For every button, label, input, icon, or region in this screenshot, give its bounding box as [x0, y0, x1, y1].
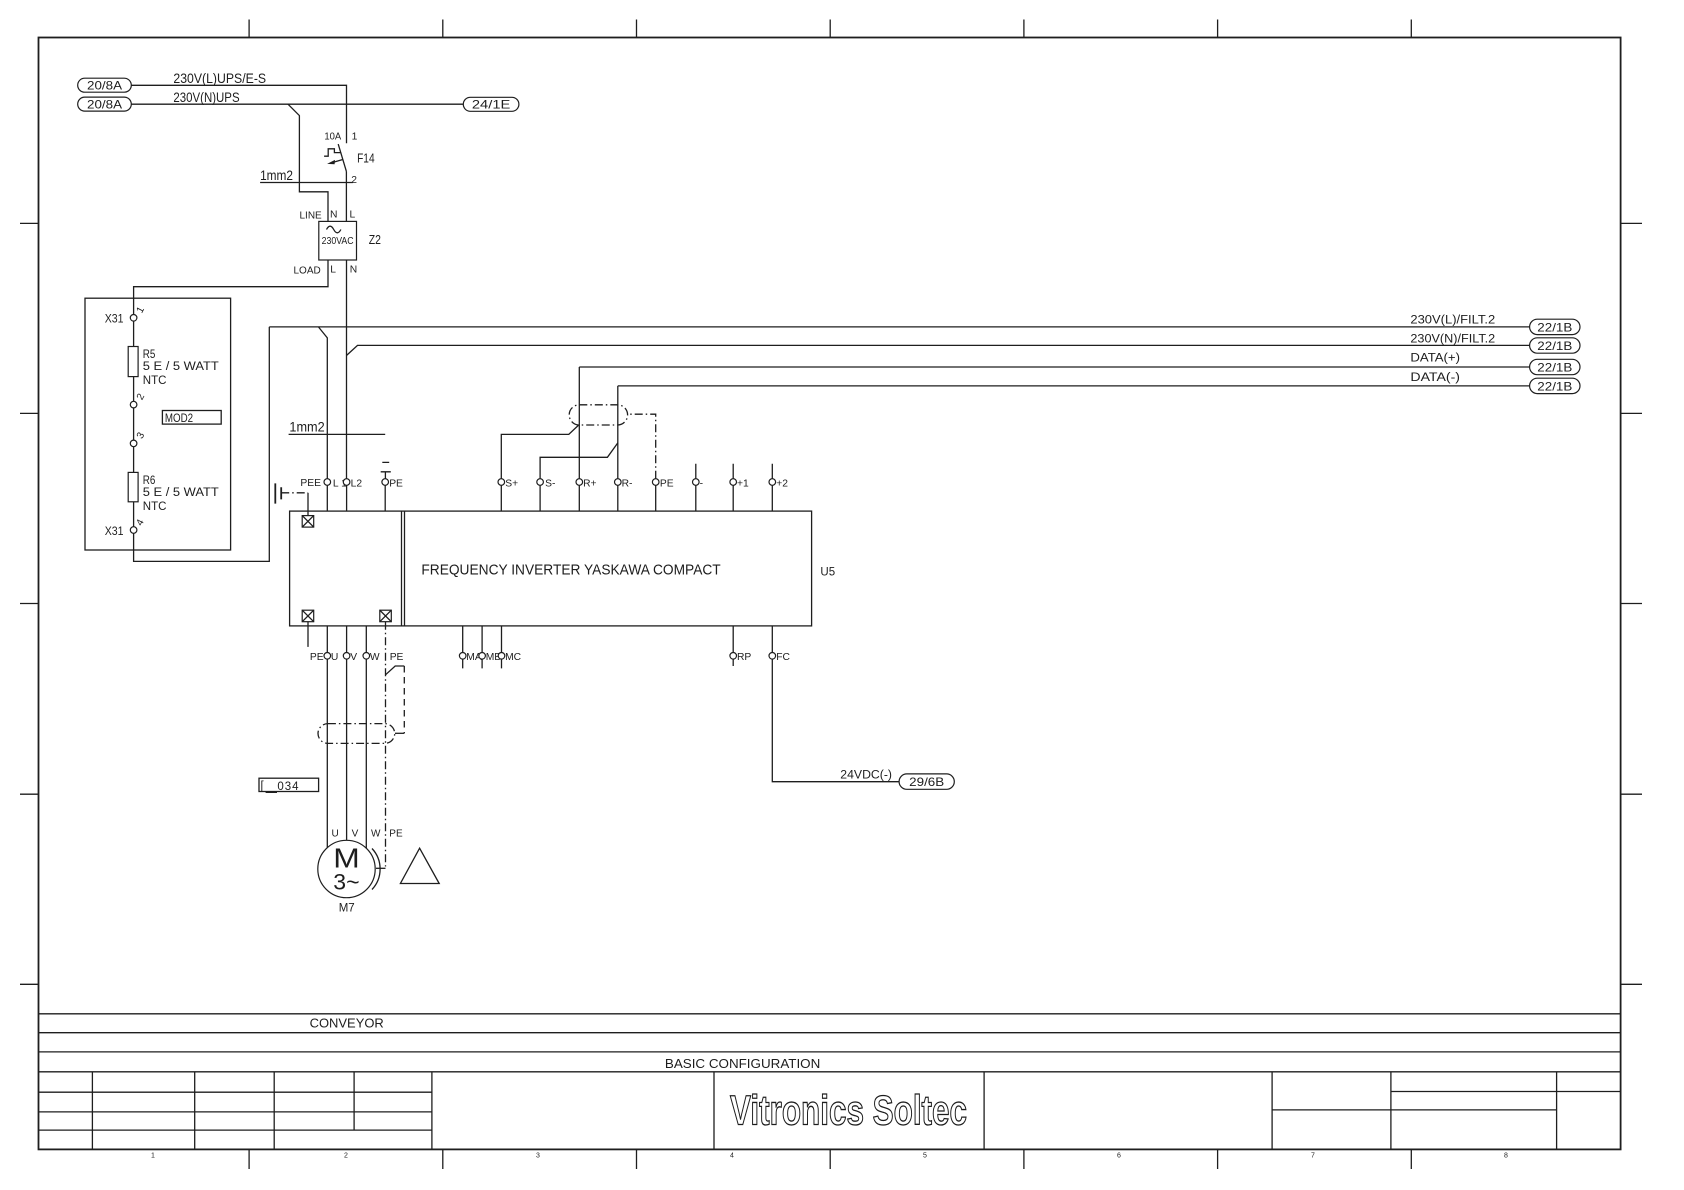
svg-text:230V(L)/FILT.2: 230V(L)/FILT.2: [1410, 314, 1495, 326]
wire W to motor: [365, 659, 367, 848]
node 3: [130, 430, 147, 446]
svg-text:BASIC CONFIGURATION: BASIC CONFIGURATION: [665, 1056, 820, 1071]
wire node 3 to R6: [133, 447, 135, 473]
svg-text:PE: PE: [389, 829, 403, 840]
svg-text:22/1B: 22/1B: [1537, 339, 1572, 353]
svg-text:R6: R6: [143, 475, 156, 487]
svg-text:PE: PE: [660, 478, 674, 489]
svg-text:U: U: [332, 829, 339, 840]
svg-text:6: 6: [1117, 1153, 1121, 1160]
Vitronics Soltec logo: [730, 1087, 967, 1134]
svg-text:R+: R+: [583, 478, 596, 489]
node 22/1B oval line 1: [1530, 319, 1580, 334]
terminal S-: [537, 478, 556, 511]
svg-text:LINE: LINE: [300, 210, 323, 221]
title block table rows: [39, 1092, 1621, 1131]
frame tick marks bottom: [249, 1149, 1411, 1169]
wire 230V(L)/FILT.2: [269, 314, 1529, 327]
svg-text:MC: MC: [505, 652, 522, 663]
terminal +2: [769, 464, 788, 511]
svg-text:5: 5: [923, 1153, 927, 1160]
svg-text:W: W: [371, 829, 381, 840]
shielded pair oval (RS-485): [569, 405, 627, 425]
svg-text:5 E / 5 WATT: 5 E / 5 WATT: [143, 487, 219, 499]
wire S- to DATA(-): [540, 443, 618, 479]
PE terminal marker bottom-left: [302, 610, 314, 622]
svg-text:R-: R-: [622, 478, 633, 489]
svg-text:N: N: [330, 209, 337, 220]
wire X31.1 to R5: [133, 321, 135, 346]
svg-text:FREQUENCY INVERTER YASKAWA COM: FREQUENCY INVERTER YASKAWA COMPACT: [421, 562, 720, 579]
svg-text:CONVEYOR: CONVEYOR: [310, 1016, 384, 1031]
wire shield drain to PE: [628, 414, 656, 479]
svg-text:L: L: [330, 264, 336, 275]
node 24/1E destination oval: [463, 97, 519, 111]
terminal MB: [479, 626, 501, 669]
node 20/8A source oval 1: [78, 78, 132, 92]
PE terminal marker bottom-mid: [380, 610, 392, 622]
svg-text:PE: PE: [389, 478, 403, 489]
wire X31.4 loop to 230V(L)/FILT.2: [134, 327, 270, 562]
node 22/1B oval line 4: [1530, 378, 1580, 393]
svg-text:10A: 10A: [324, 131, 341, 142]
svg-text:1mm2: 1mm2: [260, 167, 293, 183]
svg-text:DATA(-): DATA(-): [1410, 372, 1460, 384]
resistor R5: [128, 347, 219, 387]
svg-text:F14: F14: [357, 151, 375, 166]
svg-text:U: U: [331, 652, 338, 663]
svg-text:20/8A: 20/8A: [87, 98, 122, 112]
terminal minus: [693, 464, 704, 511]
svg-text:29/6B: 29/6B: [909, 775, 944, 789]
wire shield jog to cable oval: [386, 666, 405, 733]
resistor R6: [128, 472, 219, 512]
svg-text:230VAC: 230VAC: [322, 236, 354, 247]
svg-text:X31: X31: [105, 526, 124, 538]
terminal V: [343, 626, 357, 663]
svg-text:230V(N)/FILT.2: 230V(N)/FILT.2: [1410, 333, 1495, 345]
svg-text:L: L: [350, 209, 356, 220]
wire V to motor: [346, 659, 348, 840]
terminal RP: [730, 626, 752, 666]
svg-text:FC: FC: [776, 652, 790, 663]
svg-text:8: 8: [1504, 1153, 1508, 1160]
svg-text:-: -: [700, 478, 703, 489]
svg-text:5 E / 5 WATT: 5 E / 5 WATT: [143, 361, 219, 373]
wire node 2 to node 3: [133, 408, 135, 440]
svg-text:Vitronics Soltec: Vitronics Soltec: [730, 1087, 967, 1134]
terminal X31 pin 1: [105, 305, 148, 326]
node 29/6B oval: [899, 774, 954, 789]
terminal +1: [730, 464, 749, 511]
terminal L2: [343, 478, 362, 511]
svg-text:Z2: Z2: [369, 232, 381, 247]
module box MOD2 outline: [85, 298, 231, 550]
title block row lines: [39, 1014, 1621, 1072]
filter Z2: [294, 209, 382, 276]
wire S+ to DATA(+): [501, 425, 578, 479]
wire R6 to X31 pin 4: [133, 502, 135, 527]
label box MOD2: [162, 411, 221, 425]
svg-text:NTC: NTC: [143, 501, 167, 513]
cable label box K_034: [259, 778, 319, 793]
svg-text:2: 2: [344, 1153, 348, 1160]
svg-text:R5: R5: [143, 349, 156, 361]
terminal S+: [498, 478, 518, 511]
svg-text:1mm2: 1mm2: [289, 419, 324, 435]
svg-text:N: N: [350, 264, 357, 275]
svg-text:24VDC(-): 24VDC(-): [840, 769, 892, 781]
wire U to motor: [326, 659, 328, 848]
svg-text:V: V: [350, 652, 357, 663]
wire 230V(L)UPS/E-S: [131, 70, 346, 143]
wire DATA(-): [618, 372, 1530, 386]
frame tick marks top: [249, 20, 1411, 38]
earth symbol (functional earth): [275, 483, 308, 515]
motor M7: [318, 840, 375, 914]
svg-text:230V(L)UPS/E-S: 230V(L)UPS/E-S: [173, 70, 266, 86]
PE terminal marker top-left: [300, 478, 321, 527]
title BASIC CONFIGURATION: [665, 1056, 820, 1071]
wire Z2 load L to X31: [134, 260, 328, 315]
terminal MA: [459, 626, 481, 669]
terminal X31 pin 4: [105, 517, 147, 538]
svg-text:22/1B: 22/1B: [1537, 361, 1572, 375]
frame segment numbers bottom: [151, 1153, 1508, 1160]
terminal R+: [576, 367, 597, 511]
svg-text:M7: M7: [339, 903, 355, 915]
terminal R-: [615, 386, 633, 511]
motor cable shield oval: [318, 724, 395, 744]
svg-text:+2: +2: [776, 478, 788, 489]
svg-text:24/1E: 24/1E: [472, 98, 510, 112]
wire PE shield dash-dot to motor: [376, 622, 404, 869]
warning triangle: [400, 848, 439, 883]
svg-text:034: 034: [277, 781, 299, 793]
svg-text:3~: 3~: [333, 869, 359, 894]
svg-text:W: W: [370, 652, 380, 663]
wire size label 1mm2 (upper): [260, 167, 353, 183]
node 22/1B oval line 2: [1530, 338, 1580, 353]
svg-text:20/8A: 20/8A: [87, 79, 122, 93]
svg-text:1: 1: [352, 131, 358, 142]
terminal PE shield: [652, 478, 673, 511]
svg-text:+1: +1: [737, 478, 749, 489]
svg-text:7: 7: [1311, 1153, 1315, 1160]
terminal FC: [769, 626, 790, 663]
wire 230V(N)/FILT.2: [347, 333, 1530, 355]
wire R5 to node 2: [133, 377, 135, 402]
svg-text:MOD2: MOD2: [165, 413, 193, 425]
svg-text:PE: PE: [390, 652, 404, 663]
svg-text:3: 3: [536, 1153, 540, 1160]
svg-text:V: V: [352, 829, 359, 840]
wire tap to inverter L1: [319, 327, 328, 479]
wire PE stub bottom-left: [308, 622, 324, 664]
node 2: [130, 392, 147, 408]
wire 230V(N)UPS: [131, 89, 463, 105]
svg-text:PEE: PEE: [300, 478, 321, 489]
frame tick marks right: [1621, 223, 1642, 984]
svg-text:RP: RP: [737, 652, 751, 663]
wire DATA(+): [579, 352, 1529, 367]
node 22/1B oval line 3: [1530, 359, 1580, 374]
frequency inverter U5: [290, 511, 836, 626]
terminal L1: [324, 478, 347, 511]
wire 24VDC(-): [772, 659, 899, 782]
svg-text:X31: X31: [105, 314, 124, 326]
svg-text:2: 2: [351, 175, 357, 186]
circuit breaker F14: [324, 131, 375, 221]
terminal PE top with earth mark: [381, 462, 403, 511]
svg-text:230V(N)UPS: 230V(N)UPS: [173, 89, 239, 105]
wire neutral branch to Z2: [288, 104, 328, 221]
frame tick marks left: [20, 223, 39, 984]
svg-text:NTC: NTC: [143, 375, 167, 387]
svg-text:22/1B: 22/1B: [1537, 380, 1572, 394]
terminal U: [324, 626, 338, 663]
wire size label 1mm2 (lower): [289, 419, 386, 435]
svg-text:U5: U5: [820, 566, 835, 578]
title block table columns: [92, 1072, 1556, 1150]
svg-text:LOAD: LOAD: [294, 265, 321, 276]
terminal W: [363, 626, 380, 663]
svg-text:PE: PE: [310, 652, 324, 663]
svg-text:DATA(+): DATA(+): [1410, 352, 1460, 364]
svg-text:S+: S+: [505, 478, 518, 489]
motor shield clamp arc: [372, 849, 380, 890]
wire Z2 load N to inverter L2: [346, 260, 348, 479]
svg-text:S-: S-: [545, 478, 555, 489]
svg-text:1: 1: [151, 1153, 155, 1160]
terminal MC: [498, 626, 521, 669]
motor wire labels U V W PE: [332, 829, 403, 840]
svg-text:4: 4: [730, 1153, 734, 1160]
title CONVEYOR: [310, 1016, 384, 1031]
svg-text:22/1B: 22/1B: [1537, 321, 1572, 335]
node 20/8A source oval 2: [78, 97, 132, 111]
svg-text:L2: L2: [351, 478, 363, 489]
